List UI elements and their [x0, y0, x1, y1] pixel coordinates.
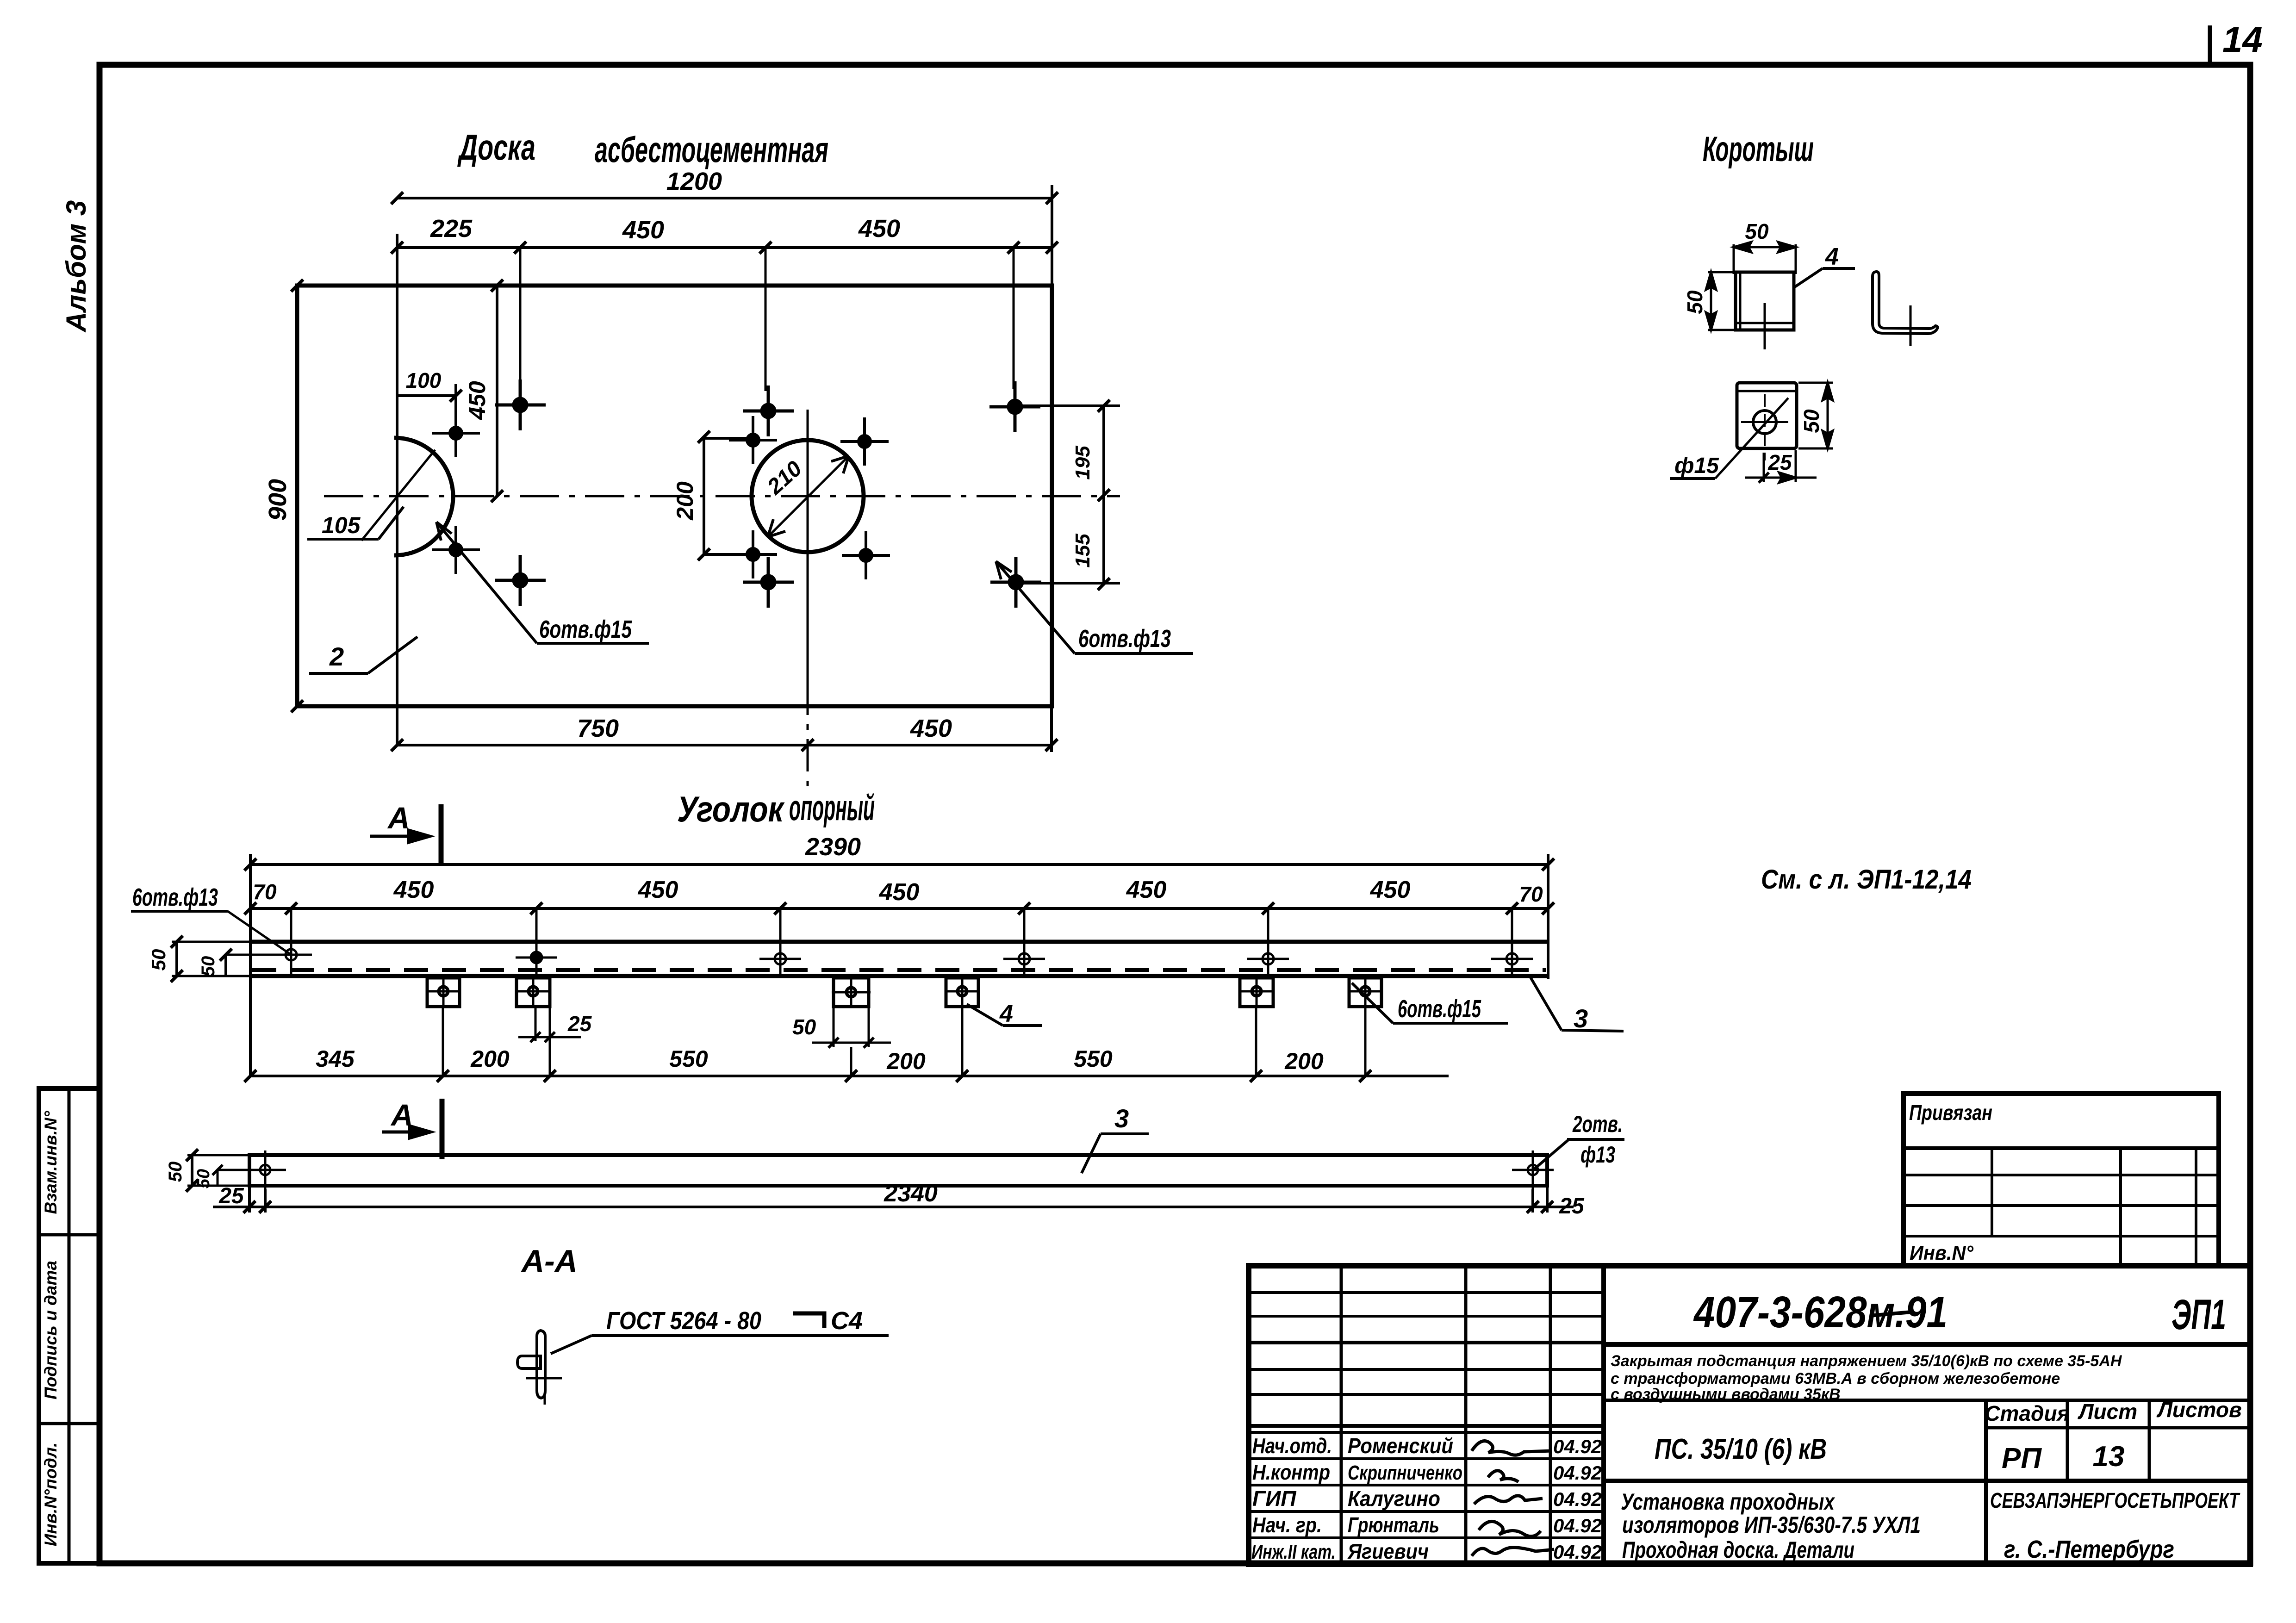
vertical center axis dash-dot below circle — [807, 683, 809, 791]
bar inner dim 50 — [212, 1165, 278, 1186]
hole cross f13 bottom-left — [495, 555, 546, 606]
label ф15 underline — [1670, 477, 1715, 480]
item label 4 leader — [967, 1004, 1042, 1026]
svg-text:100: 100 — [406, 368, 442, 392]
hole cross f13 top-right — [989, 381, 1040, 432]
svg-text:13: 13 — [2093, 1441, 2125, 1473]
svg-text:550: 550 — [1074, 1046, 1113, 1072]
svg-text:Лист: Лист — [2078, 1399, 2137, 1424]
svg-text:с трансформаторами 63МВ.А в: с трансформаторами 63МВ.А в сборном желе… — [1611, 1370, 2060, 1387]
dim line 2340 with end 25s — [213, 1186, 1574, 1213]
bar hole right — [1512, 1150, 1554, 1189]
korotysh bottom view rect — [1737, 383, 1797, 448]
label underline — [131, 910, 228, 913]
svg-text:450: 450 — [1370, 877, 1411, 903]
square centerline — [1764, 303, 1766, 349]
svg-text:50: 50 — [198, 956, 218, 977]
bar hole 4 — [1003, 939, 1045, 976]
svg-text:50: 50 — [1683, 290, 1707, 314]
korotysh square 6 — [1348, 976, 1383, 1008]
dim line 1200 — [391, 192, 1058, 204]
item label 4 leader — [1795, 268, 1855, 287]
label 6отв.ф13 leader — [996, 561, 1193, 653]
svg-text:225: 225 — [430, 215, 473, 243]
korotysh square 5 — [1239, 976, 1274, 1008]
privyazan column lines — [1992, 1148, 2196, 1266]
L-profile centerline — [1910, 305, 1912, 346]
vertical dim 450 at x=1074 — [491, 280, 503, 502]
dim 25 at square2 — [518, 1007, 581, 1042]
hole cross f13 top-left — [495, 379, 546, 430]
svg-text:г. С.-Петербург: г. С.-Петербург — [2004, 1536, 2174, 1563]
hole column extension x=1124 — [519, 248, 522, 384]
svg-text:200: 200 — [672, 481, 698, 521]
angle bar bottom edge — [250, 974, 1548, 978]
svg-text:опорный: опорный — [789, 787, 875, 828]
svg-text:70: 70 — [253, 880, 277, 904]
svg-text:900: 900 — [264, 479, 292, 521]
bar hole 2 — [516, 938, 557, 977]
svg-text:200: 200 — [470, 1046, 510, 1072]
item label 2 leader — [368, 637, 417, 673]
svg-text:Калугино: Калугино — [1348, 1486, 1440, 1511]
svg-text:450: 450 — [393, 877, 434, 903]
svg-text:04.92: 04.92 — [1553, 1462, 1602, 1484]
dim 100 — [397, 384, 462, 410]
svg-text:А: А — [390, 1098, 413, 1132]
stamp column row line 1 — [39, 1233, 100, 1237]
svg-text:450: 450 — [910, 715, 952, 742]
svg-text:А: А — [387, 801, 410, 835]
title block outer box — [1249, 1266, 2250, 1564]
hole cross f15 left-top — [432, 409, 480, 457]
privyazan outer box — [1904, 1094, 2219, 1266]
hole vertical centerline dashed — [1764, 394, 1766, 460]
svg-text:4: 4 — [1825, 243, 1839, 270]
svg-text:ГИП: ГИП — [1252, 1486, 1296, 1511]
svg-text:Стадия: Стадия — [1985, 1401, 2069, 1425]
svg-text:105: 105 — [322, 512, 361, 538]
svg-text:ф15: ф15 — [1674, 454, 1719, 478]
hole cross f13 top-middle — [743, 386, 794, 436]
svg-text:14: 14 — [2222, 19, 2263, 60]
bottom dim line 345/200/550/200/550/200 — [244, 1070, 1449, 1082]
title block vertical: signatures/dates — [1549, 1266, 1552, 1564]
weld section angle profile — [517, 1331, 562, 1405]
hole column extension x=1654 — [765, 248, 767, 391]
L-profile view — [1873, 272, 1938, 334]
svg-text:25: 25 — [1559, 1194, 1585, 1219]
svg-text:См. с л. ЭП1-12,14: См. с л. ЭП1-12,14 — [1761, 864, 1972, 895]
dim 50 left — [1706, 272, 1738, 330]
svg-text:50: 50 — [1799, 409, 1823, 433]
stamp column row line 2 — [39, 1422, 100, 1425]
label 2отв ф13 leader — [1534, 1139, 1624, 1169]
dim 25 bottom — [1745, 450, 1817, 483]
svg-text:Роменский: Роменский — [1348, 1434, 1453, 1458]
bar outline — [249, 1155, 1547, 1186]
svg-text:Закрытая подстанция напряжен: Закрытая подстанция напряжением 35/10(6)… — [1611, 1352, 2122, 1370]
hole cross f15 mid bottom-right — [842, 531, 890, 579]
svg-text:Альбом 3: Альбом 3 — [61, 200, 92, 333]
dim 50 right — [1798, 383, 1833, 448]
svg-text:6отв.ф13: 6отв.ф13 — [132, 883, 218, 911]
bar inner dim 50 — [220, 949, 308, 976]
item label 3 leader — [1531, 977, 1624, 1031]
svg-text:450: 450 — [464, 381, 490, 420]
svg-text:6отв.ф13: 6отв.ф13 — [1078, 625, 1171, 653]
svg-text:345: 345 — [316, 1046, 355, 1072]
hole horizontal centerline — [1741, 421, 1788, 423]
svg-text:04.92: 04.92 — [1553, 1515, 1602, 1536]
item label 2 underline — [309, 672, 368, 675]
svg-text:с воздушными вводами 35кВ: с воздушными вводами 35кВ — [1611, 1386, 1841, 1403]
label 105 leader — [379, 507, 404, 539]
right master extension line — [1547, 854, 1549, 979]
svg-text:50: 50 — [792, 1015, 816, 1039]
bar hole 3 — [759, 939, 801, 976]
svg-text:200: 200 — [1284, 1048, 1324, 1074]
svg-text:Листов: Листов — [2156, 1398, 2241, 1422]
plate outline rectangle — [297, 286, 1052, 706]
title block vertical: list/listov — [2148, 1400, 2151, 1481]
svg-text:Грюнталь: Грюнталь — [1348, 1513, 1439, 1537]
svg-text:450: 450 — [638, 877, 678, 903]
svg-text:200: 200 — [886, 1048, 926, 1074]
title block vertical: left part / main field — [1601, 1266, 1606, 1564]
weld bracket symbol — [793, 1313, 824, 1328]
svg-text:3: 3 — [1114, 1104, 1129, 1133]
angle bar top edge — [250, 940, 1548, 944]
label ф15 leader through hole — [1715, 398, 1788, 479]
middle circle hole 210 — [752, 440, 864, 552]
korotysh square 4 — [945, 976, 980, 1008]
title block vertical: stadia/list — [2066, 1400, 2069, 1481]
strike line through м — [1870, 1312, 1911, 1316]
svg-text:СЕВЗАПЭНЕРГОСЕТЬПРОЕКТ: СЕВЗАПЭНЕРГОСЕТЬПРОЕКТ — [1990, 1488, 2240, 1512]
svg-text:Нач.отд.: Нач.отд. — [1252, 1434, 1332, 1458]
signature 4 — [1479, 1521, 1541, 1536]
signature 2 — [1488, 1471, 1518, 1482]
vertical center axis of middle circle — [807, 410, 809, 683]
section marker A top — [370, 804, 441, 864]
plate 900 dim ticks — [291, 280, 303, 712]
svg-text:450: 450 — [879, 879, 920, 906]
svg-text:асбестоцементная: асбестоцементная — [595, 129, 828, 170]
title block horizontal under stadia header — [1986, 1426, 2250, 1430]
hole cross f15 mid bottom-left — [729, 530, 777, 578]
dim line 2390 — [244, 858, 1554, 871]
svg-text:2340: 2340 — [884, 1180, 938, 1207]
left semicircle cutout r105 — [394, 438, 453, 555]
svg-text:Уголок: Уголок — [677, 789, 785, 829]
bottom dim line 750/450 — [391, 706, 1058, 752]
svg-text:Нач. гр.: Нач. гр. — [1252, 1513, 1322, 1537]
svg-text:Н.контр: Н.контр — [1252, 1460, 1330, 1484]
title block vertical: names/signatures — [1464, 1266, 1468, 1564]
svg-text:450: 450 — [622, 216, 664, 244]
section marker A bottom — [382, 1099, 442, 1159]
svg-text:1200: 1200 — [666, 168, 722, 195]
left stamp column box — [39, 1088, 100, 1563]
weld leader line — [551, 1336, 889, 1354]
signature rows — [1249, 1459, 1604, 1538]
dim 50 at square3 — [812, 1008, 891, 1048]
dim line 70/450x5/70 — [244, 902, 1554, 914]
item label 3 leader — [1082, 1134, 1101, 1173]
svg-text:6отв.ф15: 6отв.ф15 — [1398, 995, 1481, 1023]
privyazan header line — [1904, 1146, 2219, 1150]
svg-text:Инв.N°: Инв.N° — [1910, 1242, 1973, 1264]
label 105 underline — [307, 538, 379, 541]
svg-text:50: 50 — [194, 1169, 213, 1188]
svg-text:6отв.ф15: 6отв.ф15 — [539, 616, 632, 643]
korotysh top view square — [1736, 272, 1794, 330]
korotysh square 1 — [426, 976, 461, 1008]
horizontal center axis (dash-dot) y=1072 — [324, 495, 1120, 497]
bar hole 1 — [270, 935, 312, 975]
svg-text:Проходная доска. Детали: Проходная доска. Детали — [1622, 1537, 1854, 1563]
svg-text:Ягиевич: Ягиевич — [1347, 1539, 1429, 1563]
svg-text:Подпись и дата: Подпись и дата — [41, 1261, 60, 1399]
svg-text:25: 25 — [1767, 450, 1792, 474]
left part top rows — [1249, 1293, 1604, 1432]
svg-text:50: 50 — [1745, 219, 1769, 243]
dim 50 top — [1734, 242, 1796, 274]
svg-text:ф13: ф13 — [1580, 1142, 1615, 1168]
stamp column divider vertical — [68, 1088, 71, 1563]
tick left of page number — [2208, 25, 2212, 66]
svg-text:450: 450 — [1126, 877, 1167, 903]
svg-text:ПС. 35/10 (6) кВ: ПС. 35/10 (6) кВ — [1655, 1433, 1827, 1465]
svg-text:А-А: А-А — [521, 1244, 578, 1279]
korotysh square 3 — [832, 976, 871, 1008]
dim extension at x=2273 above plate — [1051, 185, 1053, 287]
bar hole 6 — [1491, 939, 1533, 976]
svg-text:25: 25 — [218, 1184, 244, 1208]
svg-text:С4: С4 — [831, 1307, 863, 1335]
hole cross f15 left-bottom — [432, 526, 480, 574]
label leader to first hole — [228, 911, 291, 955]
svg-text:РП: РП — [2002, 1443, 2042, 1474]
bar hole 5 — [1247, 939, 1289, 976]
svg-text:70: 70 — [1519, 882, 1543, 906]
svg-text:изоляторов ИП-35/630-7.5 УХЛ1: изоляторов ИП-35/630-7.5 УХЛ1 — [1622, 1512, 1921, 1538]
bar height dim 50 outer — [186, 1149, 250, 1192]
svg-text:Коротыш: Коротыш — [1703, 130, 1814, 169]
hole cross f13 bottom-middle — [743, 557, 794, 608]
middle circle diameter line with arrows — [768, 456, 849, 537]
svg-text:04.92: 04.92 — [1553, 1488, 1602, 1510]
svg-text:450: 450 — [858, 215, 900, 243]
svg-text:Установка проходных: Установка проходных — [1621, 1489, 1836, 1515]
privyazan row lines — [1904, 1175, 2219, 1236]
svg-text:2390: 2390 — [805, 833, 861, 861]
svg-text:Доска: Доска — [457, 127, 535, 168]
svg-text:Привязан: Привязан — [1909, 1101, 1992, 1125]
svg-text:Взам.инв.N°: Взам.инв.N° — [41, 1111, 60, 1214]
hole cross f15 mid top-right — [840, 417, 889, 466]
svg-text:Инв.N°подл.: Инв.N°подл. — [41, 1443, 60, 1546]
svg-text:2отв.: 2отв. — [1572, 1111, 1623, 1137]
korotysh square 2 — [516, 976, 551, 1008]
left hole-center column line x=858 — [396, 234, 398, 746]
label 6отв.ф15 leader — [436, 522, 649, 643]
dim line 225/450/450 — [391, 242, 1058, 254]
svg-text:ЭП1: ЭП1 — [2172, 1291, 2226, 1338]
svg-text:50: 50 — [148, 949, 169, 971]
svg-text:Скрипниченко: Скрипниченко — [1348, 1461, 1462, 1484]
signature 3 — [1474, 1496, 1543, 1504]
label 6отв.ф15 (korotysh) leader — [1352, 983, 1508, 1023]
svg-text:04.92: 04.92 — [1553, 1541, 1602, 1563]
svg-text:195: 195 — [1071, 446, 1094, 480]
svg-text:155: 155 — [1071, 534, 1094, 568]
item label 3 underline — [1101, 1132, 1149, 1135]
title block horizontal under object row — [1604, 1479, 2250, 1483]
angle bar hidden dashed line — [252, 968, 1546, 972]
svg-text:550: 550 — [669, 1046, 708, 1072]
hole cross f13 bottom-right — [990, 557, 1041, 608]
svg-text:3: 3 — [1574, 1004, 1588, 1033]
hole cross f15 mid top-left — [729, 416, 777, 464]
hole column extension x=2190 — [1013, 248, 1015, 389]
vertical dim 200 at x=1521 — [698, 431, 757, 560]
semicircle diameter line — [361, 450, 435, 541]
svg-text:50: 50 — [165, 1162, 186, 1182]
svg-text:ГОСТ 5264 - 80: ГОСТ 5264 - 80 — [606, 1307, 761, 1335]
svg-text:04.92: 04.92 — [1553, 1436, 1602, 1457]
bottom extension verticals — [443, 1008, 1365, 1077]
title block horizontal under project title — [1604, 1399, 2250, 1402]
right dim 195/155 line — [1018, 400, 1120, 590]
title block horizontal under designation row — [1604, 1342, 2250, 1347]
bar hole left — [244, 1150, 286, 1189]
svg-text:2: 2 — [329, 642, 344, 671]
svg-text:750: 750 — [577, 715, 619, 742]
left master extension line — [249, 854, 252, 1077]
signature 1 — [1472, 1441, 1552, 1455]
bar height dim 50 outer — [171, 936, 252, 982]
hole circle f15 — [1753, 410, 1776, 434]
svg-text:25: 25 — [567, 1012, 592, 1036]
title block vertical: main field / stadia — [1984, 1400, 1988, 1564]
signature 5 — [1472, 1548, 1554, 1556]
svg-text:Инж.II кат.: Инж.II кат. — [1251, 1541, 1336, 1563]
title block vertical: jobs/names — [1340, 1266, 1343, 1564]
hole column extensions — [291, 908, 1512, 944]
